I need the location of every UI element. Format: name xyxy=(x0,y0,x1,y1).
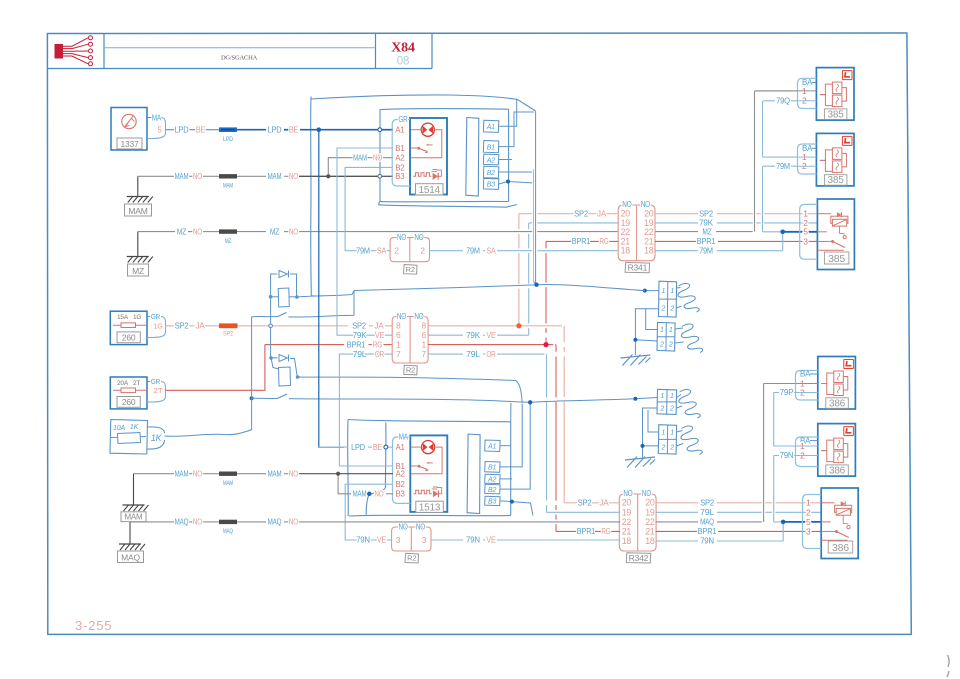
svg-text:3: 3 xyxy=(422,535,427,545)
svg-text:NO: NO xyxy=(399,523,408,532)
svg-text:MA: MA xyxy=(152,114,162,123)
svg-text:DG/SGACHA: DG/SGACHA xyxy=(221,55,258,62)
svg-text:R342: R342 xyxy=(629,553,649,563)
svg-text:NO: NO xyxy=(414,233,423,242)
svg-text:79P: 79P xyxy=(780,388,794,397)
svg-text:21: 21 xyxy=(622,526,632,536)
svg-text:NO: NO xyxy=(193,469,202,478)
svg-text:2T: 2T xyxy=(133,380,140,387)
svg-text:386: 386 xyxy=(829,465,846,476)
svg-text:B2: B2 xyxy=(488,487,496,494)
svg-text:MAQ: MAQ xyxy=(268,518,282,527)
svg-text:A2: A2 xyxy=(395,154,405,163)
svg-text:79M: 79M xyxy=(699,246,713,255)
svg-text:22: 22 xyxy=(645,517,655,527)
svg-text:MAM: MAM xyxy=(175,469,189,478)
svg-text:2: 2 xyxy=(659,406,664,413)
svg-text:MAM: MAM xyxy=(268,469,282,478)
svg-text:2: 2 xyxy=(669,406,674,413)
svg-text:2: 2 xyxy=(659,341,664,348)
svg-text:BE: BE xyxy=(289,125,298,134)
svg-text:B3: B3 xyxy=(396,490,406,499)
svg-text:MZ: MZ xyxy=(702,227,711,236)
svg-text:NO: NO xyxy=(289,469,298,478)
svg-text:MAM: MAM xyxy=(268,172,282,181)
svg-text:NO: NO xyxy=(193,172,202,181)
svg-text:NO: NO xyxy=(289,518,298,527)
svg-text:R2: R2 xyxy=(407,554,416,563)
svg-text:22: 22 xyxy=(622,517,632,527)
svg-text:SA: SA xyxy=(486,246,496,255)
svg-text:7: 7 xyxy=(396,349,401,359)
svg-text:B3: B3 xyxy=(395,172,405,181)
svg-text:LPD: LPD xyxy=(268,125,282,134)
svg-text:3: 3 xyxy=(803,236,808,246)
svg-text:1514: 1514 xyxy=(418,185,440,196)
svg-text:VE: VE xyxy=(375,331,384,340)
svg-text:B2: B2 xyxy=(487,170,495,177)
svg-text:1: 1 xyxy=(670,430,674,437)
svg-text:SP2: SP2 xyxy=(578,499,593,508)
svg-text:385: 385 xyxy=(828,253,845,265)
svg-text:79Q: 79Q xyxy=(776,97,790,106)
svg-text:08: 08 xyxy=(397,56,409,68)
svg-text:2: 2 xyxy=(660,444,665,451)
svg-text:NO: NO xyxy=(289,172,298,181)
svg-text:BPR1: BPR1 xyxy=(697,237,716,246)
svg-text:2: 2 xyxy=(806,507,811,517)
svg-text:R2: R2 xyxy=(406,366,415,375)
svg-text:RG: RG xyxy=(599,237,608,246)
svg-text:1K: 1K xyxy=(130,424,139,431)
svg-text:5: 5 xyxy=(803,227,808,237)
svg-text:BPR1: BPR1 xyxy=(577,527,596,536)
svg-text:VE: VE xyxy=(486,536,495,545)
svg-text:18: 18 xyxy=(621,246,631,256)
svg-text:79M: 79M xyxy=(776,162,790,171)
svg-text:VE: VE xyxy=(486,331,495,340)
svg-text:3: 3 xyxy=(806,526,811,536)
svg-text:JA: JA xyxy=(195,322,205,331)
svg-text:79K: 79K xyxy=(466,331,481,340)
svg-text:MZ: MZ xyxy=(132,266,144,276)
svg-text:79K: 79K xyxy=(699,219,714,228)
svg-text:SP2: SP2 xyxy=(700,499,715,508)
svg-text:B3: B3 xyxy=(488,499,496,506)
svg-text:260: 260 xyxy=(122,333,136,343)
svg-text:1337: 1337 xyxy=(120,139,139,149)
svg-text:MAQ: MAQ xyxy=(175,518,189,527)
svg-text:B1: B1 xyxy=(488,465,496,472)
svg-text:MA: MA xyxy=(399,433,409,442)
svg-text:BE: BE xyxy=(196,125,205,134)
svg-text:MAM: MAM xyxy=(353,490,367,499)
svg-text:B3: B3 xyxy=(487,182,495,189)
svg-text:NO: NO xyxy=(642,489,651,498)
svg-text:A1: A1 xyxy=(487,444,496,451)
svg-text:JA: JA xyxy=(597,209,607,218)
svg-text:MAM: MAM xyxy=(223,183,233,190)
svg-text:19: 19 xyxy=(645,507,655,517)
svg-text:20: 20 xyxy=(622,498,632,508)
svg-text:79N: 79N xyxy=(700,537,714,546)
svg-text:JA: JA xyxy=(599,499,609,508)
svg-text:RG: RG xyxy=(601,527,610,536)
svg-text:1K: 1K xyxy=(151,433,163,443)
svg-text:NO: NO xyxy=(416,523,425,532)
svg-text:BA: BA xyxy=(800,370,811,379)
svg-text:20: 20 xyxy=(645,498,655,508)
svg-text:385: 385 xyxy=(828,109,845,120)
svg-text:R341: R341 xyxy=(628,263,648,273)
svg-text:OR: OR xyxy=(375,350,385,359)
svg-text:SP2: SP2 xyxy=(699,209,714,218)
svg-text:2: 2 xyxy=(420,246,425,256)
svg-text:260: 260 xyxy=(122,397,136,407)
svg-text:79N: 79N xyxy=(780,451,794,460)
svg-text:B1: B1 xyxy=(487,144,495,151)
svg-text:21: 21 xyxy=(645,526,655,536)
svg-text:BPR1: BPR1 xyxy=(347,340,366,349)
svg-text:79L: 79L xyxy=(466,350,481,359)
svg-text:OR: OR xyxy=(486,350,496,359)
svg-text:JA: JA xyxy=(374,322,384,331)
svg-text:15A: 15A xyxy=(117,314,129,321)
svg-text:2: 2 xyxy=(394,246,399,256)
svg-text:MAM: MAM xyxy=(128,206,147,216)
svg-text:3-255: 3-255 xyxy=(75,618,112,633)
svg-text:5: 5 xyxy=(806,517,811,527)
svg-text:NO: NO xyxy=(623,489,632,498)
svg-text:2: 2 xyxy=(669,444,674,451)
svg-text:1G: 1G xyxy=(153,321,163,330)
svg-text:SP2: SP2 xyxy=(574,209,589,218)
svg-text:2: 2 xyxy=(669,306,674,313)
svg-text:LPD: LPD xyxy=(351,443,365,452)
svg-text:MAM: MAM xyxy=(124,512,143,521)
svg-text:NO: NO xyxy=(193,518,202,527)
svg-text:3: 3 xyxy=(396,535,401,545)
svg-text:B1: B1 xyxy=(395,144,405,153)
svg-text:MAQ: MAQ xyxy=(223,528,233,535)
svg-text:MAM: MAM xyxy=(353,153,367,162)
svg-text:GR: GR xyxy=(398,115,408,124)
svg-text:MAM: MAM xyxy=(223,480,233,487)
svg-text:A2: A2 xyxy=(487,477,496,484)
svg-text:NO: NO xyxy=(193,227,202,236)
svg-text:386: 386 xyxy=(829,398,846,409)
svg-text:RG: RG xyxy=(373,340,382,349)
svg-text:1: 1 xyxy=(670,288,674,295)
svg-text:X84: X84 xyxy=(391,41,415,56)
svg-text:A1: A1 xyxy=(395,126,405,135)
svg-text:79K: 79K xyxy=(353,331,368,340)
svg-text:1513: 1513 xyxy=(419,502,441,513)
svg-text:NO: NO xyxy=(397,233,406,242)
svg-text:1: 1 xyxy=(662,288,666,295)
svg-text:1: 1 xyxy=(806,498,811,508)
svg-text:B2: B2 xyxy=(395,163,405,172)
svg-text:10A: 10A xyxy=(113,425,125,432)
svg-text:19: 19 xyxy=(622,507,632,517)
svg-text:MAM: MAM xyxy=(175,172,189,181)
svg-text:79M: 79M xyxy=(466,246,480,255)
svg-text:SA: SA xyxy=(377,246,387,255)
svg-text:R2: R2 xyxy=(406,265,415,274)
svg-text:NO: NO xyxy=(641,200,650,209)
svg-text:1: 1 xyxy=(396,339,401,349)
svg-text:A2: A2 xyxy=(396,470,406,479)
svg-text:BE: BE xyxy=(373,443,382,452)
svg-text:386: 386 xyxy=(832,542,849,554)
svg-text:1: 1 xyxy=(660,327,664,334)
svg-text:NO: NO xyxy=(373,153,382,162)
svg-text:MZ: MZ xyxy=(225,238,232,245)
svg-text:79M: 79M xyxy=(356,246,370,255)
svg-text:B2: B2 xyxy=(396,480,406,489)
svg-text:1: 1 xyxy=(660,393,664,400)
svg-text:LPD: LPD xyxy=(223,136,233,143)
svg-text:NO: NO xyxy=(374,490,383,499)
svg-text:18: 18 xyxy=(645,536,655,546)
svg-text:18: 18 xyxy=(622,536,632,546)
svg-text:79L: 79L xyxy=(700,508,715,517)
svg-text:18: 18 xyxy=(644,246,654,256)
svg-text:A1: A1 xyxy=(396,443,406,452)
svg-text:1: 1 xyxy=(670,393,674,400)
svg-text:A1: A1 xyxy=(486,124,495,131)
svg-text:NO: NO xyxy=(622,200,631,209)
svg-text:LPD: LPD xyxy=(175,125,189,134)
svg-text:1G: 1G xyxy=(133,314,141,321)
svg-text:1: 1 xyxy=(669,327,673,334)
svg-text:79N: 79N xyxy=(356,536,370,545)
svg-text:SP2: SP2 xyxy=(223,331,233,338)
svg-text:2: 2 xyxy=(661,306,666,313)
svg-text:1: 1 xyxy=(422,339,427,349)
svg-text:7: 7 xyxy=(422,349,427,359)
svg-text:A2: A2 xyxy=(486,157,495,164)
svg-text:1: 1 xyxy=(661,430,665,437)
svg-text:MZ: MZ xyxy=(270,227,279,236)
svg-text:20A: 20A xyxy=(117,380,129,387)
svg-text:385: 385 xyxy=(828,175,845,186)
svg-text:BPR1: BPR1 xyxy=(572,237,591,246)
svg-text:NO: NO xyxy=(289,227,298,236)
svg-text:GR: GR xyxy=(151,312,161,321)
svg-text:79L: 79L xyxy=(353,350,368,359)
svg-text:MAQ: MAQ xyxy=(700,518,714,527)
svg-text:SP2: SP2 xyxy=(352,322,367,331)
svg-text:BPR1: BPR1 xyxy=(698,527,717,536)
svg-text:VE: VE xyxy=(377,536,386,545)
svg-text:GR: GR xyxy=(151,377,161,386)
svg-text:MAQ: MAQ xyxy=(121,552,140,562)
svg-text:SP2: SP2 xyxy=(175,322,190,331)
svg-text:2T: 2T xyxy=(153,386,163,395)
svg-text:2: 2 xyxy=(668,341,673,348)
svg-text:79N: 79N xyxy=(466,536,480,545)
svg-text:MZ: MZ xyxy=(177,227,186,236)
